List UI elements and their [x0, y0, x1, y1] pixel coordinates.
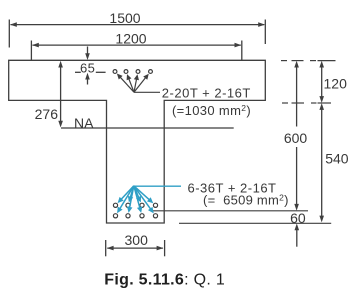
svg-text:60: 60	[290, 210, 306, 226]
beam soffit extension line	[179, 222, 331, 224]
dimension 60 (bottom cover)	[290, 210, 306, 247]
svg-text:300: 300	[125, 232, 149, 248]
svg-text:276: 276	[35, 106, 59, 122]
label (= 6509 mm2)	[203, 193, 289, 208]
dimension 120 (flange thickness)	[319, 61, 347, 103]
svg-text:600: 600	[284, 130, 308, 146]
bottom rebar pointer fan (cyan)	[117, 186, 154, 214]
svg-text:120: 120	[324, 75, 348, 91]
dimension 1500 (flange width)	[9, 10, 265, 48]
top rebar leader line	[134, 91, 160, 93]
svg-text:Fig. 5.11.6: Q. 1: Fig. 5.11.6: Q. 1	[104, 272, 225, 289]
dimension 65 (top bar cover)	[75, 47, 106, 85]
label (=1030 mm2)	[172, 103, 251, 118]
bar centroid level line	[151, 210, 309, 212]
label 2-20T + 2-16T	[162, 85, 251, 100]
svg-text:1200: 1200	[115, 31, 146, 47]
caption Fig. 5.11.6: Q. 1	[104, 272, 225, 289]
svg-text:(= 6509 mm2): (= 6509 mm2)	[203, 193, 289, 208]
bottom rebar circles (6-36T + 2-16T)	[113, 203, 157, 218]
svg-text:2-20T + 2-16T: 2-20T + 2-16T	[162, 85, 251, 100]
T-beam cross-section outline (flange 1500 wide, web 300 wide)	[9, 60, 266, 223]
top rebar circles (2-20T + 2-16T)	[113, 70, 152, 74]
label 6-36T + 2-16T	[188, 180, 277, 195]
dashed extension line at flange top (right)	[281, 60, 336, 62]
dimension 300 (web width)	[106, 232, 165, 256]
neutral axis line NA	[61, 115, 234, 131]
top rebar pointer fan	[117, 74, 149, 93]
svg-text:65: 65	[80, 60, 95, 75]
bottom rebar leader line (cyan)	[134, 185, 181, 187]
dimension 540 (web depth below flange)	[319, 103, 348, 222]
svg-text:NA: NA	[74, 115, 94, 131]
svg-text:(=1030 mm2): (=1030 mm2)	[172, 103, 251, 118]
svg-text:540: 540	[325, 150, 349, 166]
dimension 600 (effective depth)	[284, 61, 308, 211]
dashed extension line at flange bottom (right)	[282, 102, 331, 104]
dimension 276 (neutral axis depth)	[35, 61, 63, 128]
svg-text:1500: 1500	[109, 10, 140, 26]
dimension 1200 (effective flange width)	[31, 31, 241, 60]
